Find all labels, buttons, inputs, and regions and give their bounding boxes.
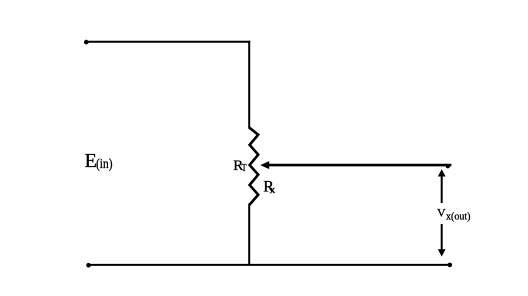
svg-text:V: V xyxy=(437,205,446,219)
svg-text:E: E xyxy=(85,150,97,172)
svg-text:x: x xyxy=(270,184,276,196)
svg-text:x(out): x(out) xyxy=(446,212,470,223)
svg-text:T: T xyxy=(242,162,247,174)
svg-text:(in): (in) xyxy=(96,157,113,172)
